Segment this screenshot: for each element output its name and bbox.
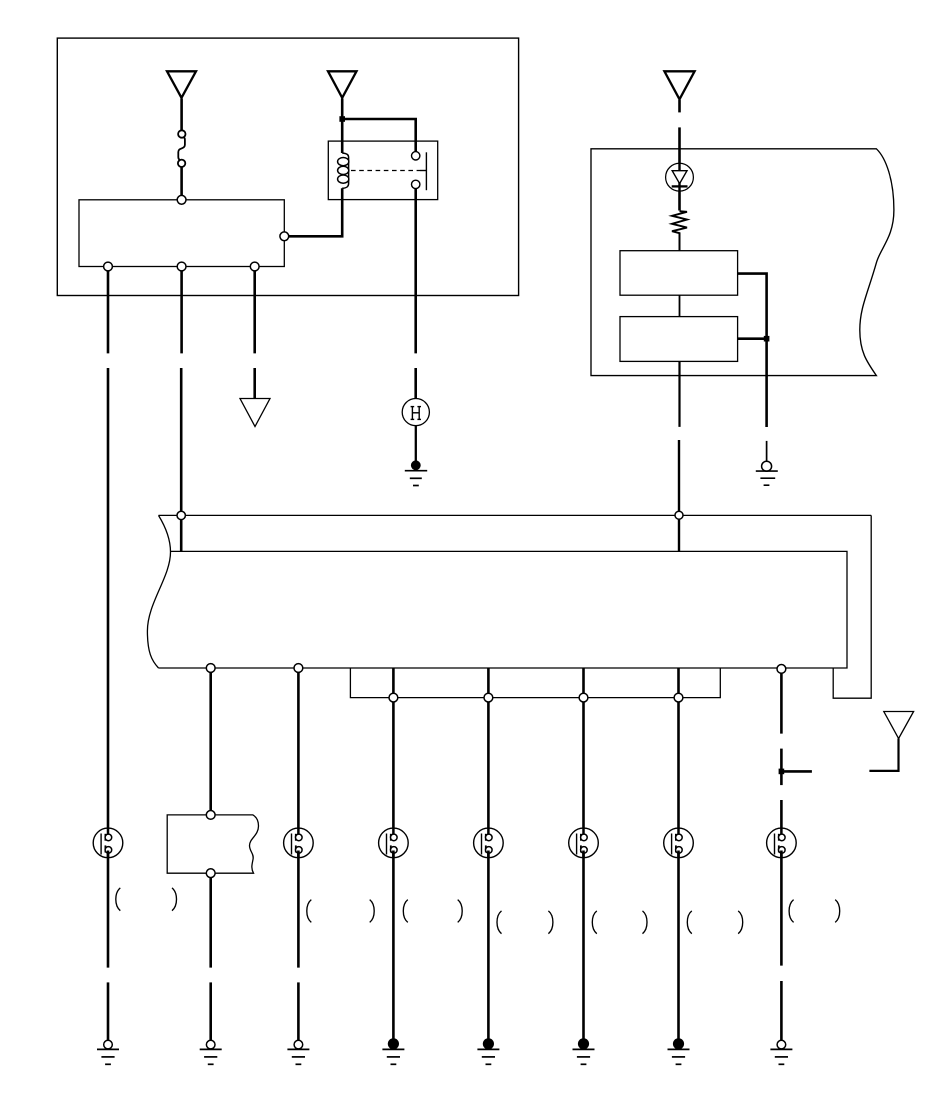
wire sub box to speaker — [392, 668, 395, 838]
wire — [780, 981, 783, 1040]
ground horn — [405, 471, 427, 486]
terminal sub box — [484, 693, 493, 702]
noise suppressor parentheses P4 — [403, 900, 462, 923]
terminal top line right — [675, 511, 683, 519]
wire — [253, 368, 256, 399]
ground bottom 4 — [382, 1049, 404, 1064]
ground terminal circle — [206, 1040, 215, 1049]
wire antenna col to ground — [780, 851, 783, 966]
ground bottom 5 — [477, 1049, 499, 1064]
horn H — [402, 399, 429, 426]
wire relay coil to box A — [289, 188, 342, 236]
ground bottom 1 — [97, 1049, 119, 1064]
terminal sub box — [674, 693, 683, 702]
wire antenna tap — [781, 770, 812, 773]
wire — [679, 295, 681, 316]
junction block box (top-left) — [57, 38, 518, 295]
noise suppressor parentheses P1 — [116, 888, 177, 911]
wire speaker to ground — [487, 851, 490, 1040]
wire col1 upper — [107, 271, 110, 354]
ground radio — [756, 471, 778, 485]
wire speaker to ground — [677, 851, 680, 1040]
ground dot — [388, 1038, 399, 1049]
noise suppressor parentheses P7 — [687, 911, 742, 934]
ground dot — [411, 460, 421, 470]
relay coil — [338, 153, 349, 188]
wire block2 to junction — [738, 337, 767, 340]
wire — [415, 426, 417, 462]
wire radio unit to ground — [209, 878, 212, 968]
noise suppressor parentheses P5 — [497, 911, 553, 934]
wire sub box to speaker — [487, 668, 490, 838]
wire — [209, 982, 212, 1040]
ground arrow triangle — [240, 399, 270, 427]
terminal box A bottom 3 — [250, 262, 259, 271]
ground terminal circle — [762, 461, 772, 471]
terminal box A right — [280, 232, 289, 241]
junction dot antenna tap — [779, 769, 785, 775]
wire bus to radio unit — [209, 668, 212, 811]
terminal bus bottom (speaker2) — [294, 664, 303, 673]
terminal sub box — [389, 693, 398, 702]
ground terminal circle — [294, 1040, 303, 1049]
ground terminal circle — [777, 1040, 786, 1049]
ground dot — [673, 1038, 684, 1049]
wire speaker to ground — [392, 851, 395, 1040]
terminal radio unit bottom — [206, 869, 215, 878]
wire sub box to speaker — [582, 668, 585, 838]
ground bottom 8 — [770, 1049, 792, 1064]
wire col1 mid — [107, 368, 110, 838]
ground bottom 7 — [668, 1049, 690, 1064]
terminal radio unit top — [206, 811, 215, 820]
power feed triangle B3 — [664, 71, 694, 99]
wire — [341, 99, 344, 154]
wire sub box to speaker — [677, 668, 680, 838]
relay contact — [412, 152, 427, 191]
terminal bus bottom (antenna col) — [777, 665, 786, 674]
noise suppressor parentheses P6 — [592, 911, 647, 934]
junction dot — [339, 116, 345, 122]
antenna symbol — [869, 712, 913, 771]
terminal box A bottom 2 — [177, 262, 186, 271]
horn relay box — [328, 141, 437, 200]
ground dot — [578, 1038, 589, 1049]
wire — [180, 99, 183, 132]
power feed triangle B2 — [328, 71, 357, 98]
wire — [297, 982, 300, 1040]
terminal top line left — [177, 511, 185, 519]
speaker connector 6 — [664, 828, 694, 858]
wire — [342, 119, 416, 152]
wire — [678, 191, 681, 210]
ground bottom 2 — [200, 1049, 222, 1064]
speaker connector 3 — [379, 828, 409, 858]
wire — [180, 167, 183, 197]
terminal bus bottom (radio) — [206, 664, 215, 673]
radio block 1 — [620, 251, 738, 296]
noise suppressor parentheses P8 — [789, 900, 840, 923]
illumination diode symbol — [666, 163, 694, 191]
radio assembly box (top-right, torn edge) — [591, 149, 894, 376]
wire bus to antenna column — [780, 668, 783, 734]
noise suppressor parentheses P3 — [307, 900, 374, 923]
wire speaker to ground upper — [107, 851, 110, 968]
wire to ground arrow — [253, 271, 256, 354]
wire speaker to ground — [582, 851, 585, 1040]
power feed triangle B1 — [167, 71, 196, 98]
ground bottom 6 — [573, 1049, 595, 1064]
resistor — [672, 211, 687, 233]
wire — [414, 368, 417, 399]
speaker connector 4 — [474, 828, 504, 858]
radio unit box (torn edge) — [167, 815, 258, 873]
bus hook wire (right side) — [833, 515, 871, 698]
speaker connector 1 — [93, 828, 123, 858]
wire speaker to ground upper — [297, 851, 300, 968]
wire — [678, 440, 680, 551]
terminal box A bottom 1 — [104, 262, 113, 271]
speaker connector 5 — [569, 828, 599, 858]
wire relay to horn — [414, 189, 417, 354]
bus sub connector box — [350, 668, 720, 698]
wire — [180, 368, 183, 551]
wire radio to bus — [678, 361, 680, 427]
ground dot — [483, 1038, 494, 1049]
speaker connector 7 — [767, 828, 797, 858]
speaker connector 2 — [284, 828, 314, 858]
junction dot — [764, 336, 770, 342]
wire from box A to bus upper — [180, 271, 183, 354]
wire block1 to junction — [738, 274, 767, 427]
bus top feed line — [159, 514, 872, 516]
terminal sub box — [579, 693, 588, 702]
wire harness bus (torn left edge) — [147, 515, 847, 668]
wire — [107, 982, 110, 1040]
terminal box A top — [177, 195, 186, 204]
wire — [766, 441, 768, 462]
wire bus to speaker 2 — [297, 668, 300, 838]
wire — [780, 800, 783, 838]
ground bottom 3 — [287, 1049, 309, 1064]
wire — [679, 232, 681, 250]
wire — [678, 127, 681, 163]
relay armature dashed link — [351, 170, 420, 172]
fusible link — [178, 130, 186, 167]
wire — [780, 749, 783, 786]
ground terminal circle — [104, 1040, 113, 1049]
wire — [678, 100, 681, 113]
radio block 2 — [620, 317, 738, 362]
integration relay box A — [79, 200, 284, 267]
